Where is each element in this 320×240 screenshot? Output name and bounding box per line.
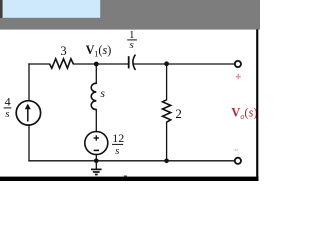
node B (top right of R2)	[164, 61, 169, 66]
voltage source plus sign	[94, 135, 99, 140]
current source arrow	[27, 108, 29, 122]
wire: voltage source bottom to ground node	[95, 154, 97, 160]
wire: capacitor to top-right terminal	[134, 63, 235, 65]
page background	[0, 0, 260, 182]
label: 1/s fraction	[127, 29, 137, 51]
svg-text:s: s	[130, 39, 134, 51]
svg-text:12: 12	[112, 131, 124, 145]
wire: left vertical upper (corner down to current source)	[28, 64, 30, 101]
dark strip top-left	[0, 0, 3, 18]
label: 12/s fraction	[112, 131, 124, 157]
svg-text:s: s	[5, 108, 9, 120]
current source I 4/s: circle	[16, 101, 40, 125]
voltage source minus sign	[94, 149, 99, 151]
blue title box	[3, 0, 101, 18]
svg-text:2: 2	[175, 106, 182, 121]
wire: resistor R1 right lead to capacitor	[73, 63, 128, 65]
polarity plus (red)	[236, 74, 241, 79]
polarity minus (red, faint dashes)	[235, 149, 239, 151]
wire: resistor R2 bottom to bottom wire	[166, 122, 168, 161]
top gray band	[0, 0, 260, 30]
svg-text:V1(s): V1(s)	[86, 43, 112, 59]
svg-text:4: 4	[5, 95, 11, 109]
terminal: top-right open circle	[235, 61, 241, 67]
inductor L1 (s) coil	[91, 83, 96, 109]
wire: node B down to resistor R2 top	[166, 64, 168, 100]
wire: inductor bottom to voltage source top	[95, 110, 97, 132]
node A (V1 node, top)	[94, 62, 99, 67]
svg-text:s: s	[100, 86, 105, 100]
wire: bottom horizontal	[29, 160, 235, 162]
svg-text:s: s	[115, 145, 119, 157]
wire: left vertical lower (current source to bottom wire)	[28, 125, 30, 161]
node: ground junction on bottom wire	[94, 159, 99, 164]
voltage source V 12/s: circle	[85, 132, 108, 155]
capacitor C1: right curved plate	[133, 55, 136, 70]
resistor R2 (2 ohm) vertical zigzag	[163, 100, 171, 122]
ground symbol	[91, 161, 102, 175]
wire: node A down to inductor top	[95, 64, 97, 84]
terminal: bottom-right open circle	[235, 158, 241, 164]
node: bottom of R2 on bottom wire	[164, 159, 169, 164]
slide right black border	[256, 29, 258, 181]
resistor R1 (3 ohm) zigzag	[50, 59, 74, 68]
slide bottom black bar	[0, 177, 259, 181]
wire: top-left horizontal (left corner to resistor R1)	[29, 63, 50, 65]
capacitor C1 (1/s): left flat plate	[128, 56, 130, 68]
svg-text:Vo(s): Vo(s)	[231, 105, 257, 121]
label: 4/s fraction	[4, 95, 12, 120]
svg-text:3: 3	[60, 44, 66, 58]
caption fragment bottom	[124, 176, 127, 177]
